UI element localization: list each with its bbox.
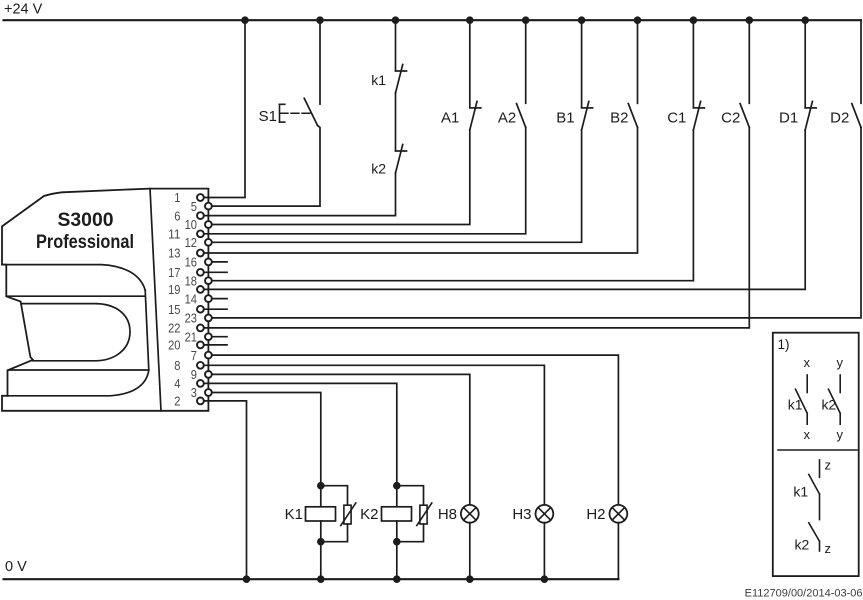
svg-text:H2: H2: [586, 506, 605, 523]
junction K2 branch top: [393, 482, 401, 490]
svg-text:y: y: [836, 355, 843, 370]
connector block slant edge: [150, 189, 161, 411]
wire lamp H2 to 0V: [617, 523, 619, 580]
scanner shelf line upper: [2, 265, 145, 291]
contact C1: [692, 20, 694, 107]
junction +24V / A2 column: [522, 16, 530, 24]
pin 12 terminal: [205, 239, 212, 246]
S1 actuator symbol: [279, 104, 281, 122]
junction 0V / K2: [393, 575, 401, 583]
wire stub pin 21: [212, 336, 227, 338]
contact D1: [804, 20, 806, 107]
wire stub pin 16: [212, 261, 227, 263]
pin 10 terminal: [205, 221, 212, 228]
scanner window opening: [21, 304, 130, 361]
junction +24V / B2 column: [634, 16, 642, 24]
svg-text:19: 19: [168, 282, 180, 297]
svg-text:0 V: 0 V: [5, 559, 27, 575]
svg-text:B1: B1: [556, 110, 574, 127]
junction K1 branch bottom: [317, 538, 325, 546]
legend series contact k2 (z): [819, 494, 821, 520]
svg-text:22: 22: [168, 321, 180, 336]
pin 8 terminal: [197, 362, 204, 369]
+24V supply rail wire: [4, 19, 862, 21]
svg-text:21: 21: [185, 329, 197, 344]
svg-text:14: 14: [185, 291, 197, 306]
svg-text:K2: K2: [360, 506, 378, 523]
svg-text:D1: D1: [779, 110, 798, 127]
svg-text:k1: k1: [788, 397, 803, 413]
junction +24V / C2 column: [746, 16, 754, 24]
junction +24V / C1 column: [690, 16, 698, 24]
pin 6 terminal: [197, 212, 204, 219]
svg-text:S1: S1: [259, 108, 277, 125]
indicator lamp H2: [610, 505, 628, 523]
svg-text:15: 15: [168, 302, 180, 317]
legend series contact k1 (z): [819, 460, 821, 477]
relay coil K2: [382, 507, 412, 521]
svg-text:k2: k2: [795, 537, 810, 553]
svg-text:20: 20: [168, 338, 180, 353]
junction +24V / A1 column: [466, 16, 474, 24]
pin 2 terminal: [197, 398, 204, 405]
svg-text:k2: k2: [371, 161, 386, 177]
svg-text:S3000: S3000: [58, 209, 114, 231]
svg-text:H3: H3: [512, 506, 531, 523]
wire relay K1 to 0V: [320, 521, 322, 579]
junction 0V / H8: [466, 575, 474, 583]
svg-text:k1: k1: [371, 72, 386, 88]
svg-text:18: 18: [185, 273, 197, 288]
svg-text:13: 13: [168, 246, 180, 261]
svg-text:C2: C2: [721, 110, 740, 127]
scanner mid-right edge and front curve: [8, 290, 149, 396]
svg-text:10: 10: [185, 217, 197, 232]
svg-text:E112709/00/2014-03-06: E112709/00/2014-03-06: [745, 588, 863, 600]
pin 17 terminal: [197, 269, 204, 276]
pin 11 terminal: [197, 230, 204, 237]
wire stub pin 17: [204, 271, 227, 273]
svg-text:Professional: Professional: [36, 231, 134, 253]
pin 15 terminal: [197, 306, 204, 313]
svg-text:2: 2: [174, 394, 180, 409]
svg-text:z: z: [825, 457, 832, 472]
pin 23 terminal: [205, 315, 212, 322]
wire pin 9 to lamp H8: [212, 374, 470, 505]
indicator lamp H3: [536, 505, 554, 523]
legend contact k2 (y-y): [839, 375, 841, 393]
svg-text:B2: B2: [610, 110, 628, 127]
svg-text:16: 16: [185, 255, 197, 270]
svg-text:K1: K1: [285, 506, 303, 523]
pin 4 terminal: [197, 380, 204, 387]
junction +24V / S1 column: [316, 16, 324, 24]
wire pin 2 to 0V rail: [204, 401, 247, 579]
wire pin 3 to relay K1: [212, 393, 321, 507]
pin 1 terminal: [197, 194, 204, 201]
svg-text:+24 V: +24 V: [4, 2, 43, 18]
junction K1 branch top: [317, 482, 325, 490]
legend contact k1 (x-x): [806, 375, 808, 393]
junction 0V / pin 2 drop: [243, 575, 251, 583]
svg-text:4: 4: [174, 376, 180, 391]
svg-text:D2: D2: [830, 110, 849, 127]
svg-text:8: 8: [174, 358, 180, 373]
svg-text:6: 6: [174, 208, 180, 223]
pin 9 terminal: [205, 371, 212, 378]
junction 0V / K1: [317, 575, 325, 583]
svg-text:x: x: [803, 355, 810, 370]
scanner S3000 body outline: [2, 189, 208, 411]
pin 20 terminal: [197, 342, 204, 349]
0V return rail wire: [4, 578, 619, 580]
contact A2: [525, 20, 527, 103]
svg-text:k2: k2: [822, 397, 837, 413]
contact B1: [581, 20, 583, 107]
pin 21 terminal: [205, 333, 212, 340]
suppressor branch K2: [397, 486, 424, 506]
svg-text:A2: A2: [498, 110, 516, 127]
wire k2 to pin 6: [204, 173, 396, 216]
wire lamp H3 to 0V: [543, 523, 545, 580]
svg-text:y: y: [836, 427, 843, 442]
junction 0V / H3: [541, 575, 549, 583]
wire pin 7 to lamp H2: [212, 355, 619, 505]
wire pin 1 to +24V rail: [204, 20, 245, 197]
legend box: [773, 333, 859, 576]
svg-text:3: 3: [191, 385, 197, 400]
contact B2: [637, 20, 639, 103]
wire relay K2 to 0V: [396, 521, 398, 579]
contact k2 (NC): [395, 93, 397, 151]
wire stub pin 15: [204, 308, 227, 310]
junction +24V / B1 column: [578, 16, 586, 24]
svg-text:9: 9: [191, 367, 197, 382]
pin 18 terminal: [205, 277, 212, 284]
svg-text:A1: A1: [441, 110, 459, 127]
pin 3 terminal: [205, 389, 212, 396]
svg-text:11: 11: [168, 227, 180, 242]
scanner shelf line middle: [6, 295, 145, 297]
svg-text:17: 17: [168, 265, 180, 280]
wire pin 8 to lamp H3: [204, 365, 545, 505]
scanner shelf line lower: [9, 369, 149, 371]
svg-text:7: 7: [191, 348, 197, 363]
wire stub pin 14: [212, 298, 227, 300]
svg-text:C1: C1: [667, 110, 686, 127]
contact D2: [860, 20, 862, 103]
relay coil K1: [306, 507, 336, 521]
svg-text:z: z: [825, 541, 832, 556]
contact C2: [748, 20, 750, 103]
suppressor branch K1: [321, 486, 348, 506]
svg-text:1): 1): [778, 337, 790, 352]
svg-text:12: 12: [185, 235, 197, 250]
pin 5 terminal: [205, 203, 212, 210]
junction +24V / k1k2 column: [392, 16, 400, 24]
svg-text:x: x: [803, 427, 810, 442]
indicator lamp H8: [461, 505, 479, 523]
pin 7 terminal: [205, 352, 212, 359]
pin 16 terminal: [205, 259, 212, 266]
pin 22 terminal: [197, 325, 204, 332]
pin 19 terminal: [197, 286, 204, 293]
junction +24V / D1 column: [801, 16, 809, 24]
contact A1: [469, 20, 471, 107]
svg-text:5: 5: [191, 199, 197, 214]
junction K2 branch bottom: [393, 538, 401, 546]
legend divider: [778, 449, 857, 451]
junction +24V / pin 1 riser: [241, 16, 249, 24]
wire pin 4 to relay K2: [204, 383, 397, 506]
wire stub pin 20: [204, 344, 227, 346]
svg-text:23: 23: [185, 311, 197, 326]
svg-text:1: 1: [174, 190, 180, 205]
contact k1 (NC): [395, 20, 397, 70]
svg-text:H8: H8: [438, 506, 457, 523]
svg-text:k1: k1: [793, 483, 808, 499]
wire lamp H8 to 0V: [469, 523, 471, 580]
pin 13 terminal: [197, 250, 204, 257]
pin 14 terminal: [205, 295, 212, 302]
pushbutton S1 contact: [319, 20, 321, 104]
